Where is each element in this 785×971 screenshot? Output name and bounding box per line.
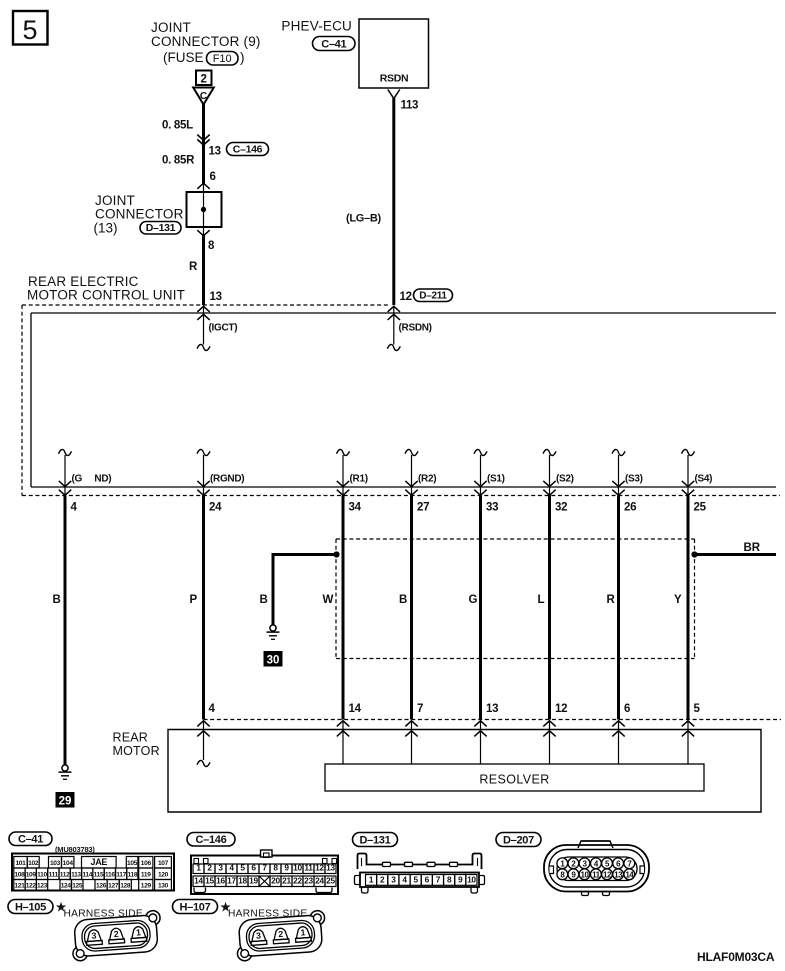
svg-text:32: 32 xyxy=(555,502,567,514)
connector view D-131 xyxy=(358,854,482,870)
svg-text:6: 6 xyxy=(425,875,430,885)
svg-text:126: 126 xyxy=(96,883,107,890)
svg-text:33: 33 xyxy=(486,502,498,514)
svg-text:24: 24 xyxy=(209,502,222,514)
ground symbol 29 xyxy=(62,765,68,771)
resolver wires R1 R2 S1 S2 S3 S4 xyxy=(342,496,345,720)
svg-text:3: 3 xyxy=(218,863,223,873)
svg-text:102: 102 xyxy=(28,860,39,867)
svg-text:4: 4 xyxy=(402,875,407,885)
svg-text:14: 14 xyxy=(349,703,362,715)
resolver pin 5 entry xyxy=(682,721,694,727)
svg-text:HLAF0M03CA: HLAF0M03CA xyxy=(697,950,775,964)
svg-text:25: 25 xyxy=(326,876,335,886)
control unit dashed boundary xyxy=(22,304,390,306)
wire fork at PHEV-ECU pin 113 xyxy=(388,90,400,99)
svg-text:B: B xyxy=(260,594,268,606)
svg-text:29: 29 xyxy=(59,795,72,807)
control unit pin 34 (R1) wire inside xyxy=(337,449,350,455)
PHEV-ECU box xyxy=(359,19,429,88)
pin 13 entry IGCT xyxy=(197,306,209,312)
connector label D-131 (bottom) xyxy=(353,833,398,847)
svg-text:4: 4 xyxy=(71,502,78,514)
svg-text:W: W xyxy=(323,594,334,606)
svg-text:RSDN: RSDN xyxy=(380,73,409,85)
svg-text:(IGCT): (IGCT) xyxy=(209,323,238,334)
RESOLVER box xyxy=(325,764,704,791)
svg-text:H–107: H–107 xyxy=(180,902,211,914)
svg-text:4: 4 xyxy=(229,863,234,873)
svg-text:9: 9 xyxy=(458,875,463,885)
svg-text:8: 8 xyxy=(273,863,278,873)
svg-text:116: 116 xyxy=(105,872,115,879)
svg-text:MOTOR CONTROL UNIT: MOTOR CONTROL UNIT xyxy=(27,288,185,303)
shield dashed box xyxy=(336,538,695,540)
ground symbol 30 xyxy=(270,625,276,631)
svg-text:7: 7 xyxy=(436,875,441,885)
connector label D-207 (bottom) xyxy=(496,833,541,847)
svg-text:10: 10 xyxy=(467,875,476,885)
svg-text:16: 16 xyxy=(216,876,225,886)
svg-text:1: 1 xyxy=(369,875,374,885)
wire PHEV-ECU to control unit pin 12, color LG-B xyxy=(392,98,395,305)
svg-text:(S4): (S4) xyxy=(695,474,713,485)
control unit pin 26 (S3) wire inside xyxy=(612,449,625,455)
svg-text:24: 24 xyxy=(315,876,324,886)
svg-text:PHEV-ECU: PHEV-ECU xyxy=(281,19,352,34)
svg-text:(S1): (S1) xyxy=(487,474,505,485)
svg-text:3: 3 xyxy=(256,930,262,940)
svg-text:125: 125 xyxy=(72,883,83,890)
svg-text:7: 7 xyxy=(262,863,267,873)
svg-text:(R1): (R1) xyxy=(350,474,368,485)
control unit pin 4 (GND) wire inside xyxy=(59,449,72,455)
resolver pin 13 entry xyxy=(474,721,486,727)
connector view H-107 body xyxy=(235,910,327,961)
connector label C-146 xyxy=(227,143,269,156)
svg-text:119: 119 xyxy=(141,872,151,879)
svg-text:26: 26 xyxy=(624,502,636,514)
joint connector (13) box D-131 xyxy=(203,183,205,236)
svg-text:B: B xyxy=(399,594,407,606)
control unit pin 33 (S1) wire inside xyxy=(474,449,487,455)
svg-text:107: 107 xyxy=(158,860,169,867)
svg-text:108: 108 xyxy=(14,872,25,879)
svg-text:(S3): (S3) xyxy=(625,474,643,485)
svg-text:13: 13 xyxy=(614,870,623,879)
svg-text:C–41: C–41 xyxy=(18,834,43,846)
svg-text:5: 5 xyxy=(414,875,419,885)
svg-text:104: 104 xyxy=(63,860,74,867)
svg-text:F10: F10 xyxy=(213,53,232,65)
wire from fuse to joint connector D-131 xyxy=(202,104,205,184)
svg-text:BR: BR xyxy=(744,542,761,554)
svg-text:30: 30 xyxy=(267,654,280,666)
svg-text:121: 121 xyxy=(14,883,25,890)
svg-text:12: 12 xyxy=(603,870,612,879)
svg-text:8: 8 xyxy=(447,875,452,885)
svg-text:D–131: D–131 xyxy=(146,222,176,234)
svg-text:D–207: D–207 xyxy=(503,835,534,847)
svg-text:117: 117 xyxy=(116,872,126,879)
svg-text:R: R xyxy=(607,594,616,606)
svg-text:MOTOR: MOTOR xyxy=(113,744,160,758)
svg-text:(RSDN): (RSDN) xyxy=(399,323,432,334)
svg-text:G: G xyxy=(469,594,478,606)
connector view C-146 xyxy=(191,856,338,895)
svg-text:13: 13 xyxy=(209,146,221,158)
wire pin24 RGND to rear motor pin4 xyxy=(202,496,205,720)
svg-text:CONNECTOR (9): CONNECTOR (9) xyxy=(151,34,261,49)
svg-text:114: 114 xyxy=(82,872,92,879)
svg-text:14: 14 xyxy=(625,870,634,879)
svg-text:6: 6 xyxy=(624,703,630,715)
svg-text:109: 109 xyxy=(26,872,37,879)
svg-text:6: 6 xyxy=(251,863,256,873)
shield BR wire to next page xyxy=(691,551,697,557)
svg-text:6: 6 xyxy=(210,171,216,183)
svg-text:11: 11 xyxy=(304,863,313,873)
resolver pin 6 entry xyxy=(612,721,624,727)
svg-text:5: 5 xyxy=(694,703,701,715)
svg-text:1: 1 xyxy=(196,863,201,873)
svg-text:12: 12 xyxy=(315,863,324,873)
svg-text:3: 3 xyxy=(391,875,396,885)
svg-text:10: 10 xyxy=(293,863,302,873)
svg-text:11: 11 xyxy=(592,870,601,879)
D-207 side notches xyxy=(550,866,554,874)
svg-text:): ) xyxy=(240,50,245,65)
svg-text:27: 27 xyxy=(417,502,429,514)
svg-text:34: 34 xyxy=(349,502,362,514)
control unit pin 24 (RGND) wire inside xyxy=(197,449,210,455)
svg-text:B: B xyxy=(53,594,61,606)
svg-text:13: 13 xyxy=(486,703,498,715)
svg-text:(S2): (S2) xyxy=(556,474,574,485)
control unit inner solid box xyxy=(31,312,776,314)
shield drain wire B to ground 30 xyxy=(273,553,337,556)
svg-text:124: 124 xyxy=(61,883,72,890)
svg-text:113: 113 xyxy=(71,872,81,879)
svg-text:5: 5 xyxy=(22,15,37,45)
wire joint connector to control unit pin 13 xyxy=(197,230,209,236)
svg-text:2: 2 xyxy=(278,929,284,939)
connector label D-131 xyxy=(140,222,181,235)
D-207 pins 1-14 xyxy=(557,858,568,869)
svg-text:19: 19 xyxy=(249,876,258,886)
connector label C-146 (bottom) xyxy=(187,833,235,847)
svg-text:123: 123 xyxy=(37,883,48,890)
svg-text:C–146: C–146 xyxy=(233,144,263,156)
svg-text:130: 130 xyxy=(158,883,169,890)
svg-text:4: 4 xyxy=(209,703,216,715)
svg-text:15: 15 xyxy=(205,876,214,886)
C-146 bottom tabs xyxy=(194,888,206,893)
svg-text:128: 128 xyxy=(120,883,131,890)
svg-text:13: 13 xyxy=(210,291,222,303)
svg-text:120: 120 xyxy=(158,872,169,879)
svg-text:118: 118 xyxy=(127,872,137,879)
svg-text:3: 3 xyxy=(91,930,97,940)
svg-text:1: 1 xyxy=(136,927,142,937)
rear motor pin 4 entry xyxy=(197,721,209,727)
connector label C-41 xyxy=(313,37,356,51)
svg-text:112: 112 xyxy=(60,872,70,879)
control unit pin 25 (S4) wire inside xyxy=(682,449,695,455)
svg-text:(G ND): (G ND) xyxy=(72,474,112,485)
svg-text:D–211: D–211 xyxy=(419,291,447,302)
svg-text:(RGND): (RGND) xyxy=(210,474,244,485)
svg-text:C–41: C–41 xyxy=(321,39,346,51)
svg-text:2: 2 xyxy=(207,863,212,873)
connector label C-41 (bottom) xyxy=(9,832,52,846)
svg-text:L: L xyxy=(538,594,545,606)
svg-text:129: 129 xyxy=(141,883,152,890)
svg-text:0. 85L: 0. 85L xyxy=(162,120,193,132)
svg-text:REAR: REAR xyxy=(113,731,149,745)
svg-text:10: 10 xyxy=(581,870,590,879)
svg-text:REAR ELECTRIC: REAR ELECTRIC xyxy=(28,274,139,289)
svg-text:C–146: C–146 xyxy=(196,834,227,846)
connector view C-41 grid xyxy=(12,854,174,891)
svg-text:110: 110 xyxy=(37,872,47,879)
pin 12 entry RSDN xyxy=(388,306,400,312)
resolver pin 7 entry xyxy=(405,721,417,727)
control unit pin 32 (S2) wire inside xyxy=(543,449,556,455)
svg-text:(R2): (R2) xyxy=(418,474,436,485)
svg-text:9: 9 xyxy=(284,863,289,873)
svg-text:12: 12 xyxy=(555,703,567,715)
svg-text:17: 17 xyxy=(227,876,236,886)
svg-text:115: 115 xyxy=(94,872,104,879)
svg-text:21: 21 xyxy=(282,876,291,886)
svg-text:22: 22 xyxy=(293,876,302,886)
wire pin4 GND to ground 29 xyxy=(64,496,67,766)
connector label H-105 xyxy=(8,900,53,914)
svg-text:H–105: H–105 xyxy=(15,902,46,914)
svg-text:101: 101 xyxy=(15,860,26,867)
svg-text:0. 85R: 0. 85R xyxy=(162,155,195,167)
D-207 bottom feet xyxy=(582,892,589,896)
resolver pin 14 entry xyxy=(337,721,349,727)
svg-text:5: 5 xyxy=(240,863,245,873)
svg-text:Y: Y xyxy=(674,594,682,606)
svg-text:14: 14 xyxy=(194,876,203,886)
connector label H-107 xyxy=(173,900,218,914)
svg-text:D–131: D–131 xyxy=(360,835,391,847)
svg-text:2: 2 xyxy=(113,929,119,939)
connector pass-through C-146 chevrons xyxy=(197,135,209,141)
svg-text:1: 1 xyxy=(300,927,306,937)
rear motor box xyxy=(168,730,761,813)
svg-text:127: 127 xyxy=(108,883,119,890)
svg-text:8: 8 xyxy=(208,240,215,252)
svg-text:113: 113 xyxy=(401,100,419,112)
svg-text:RESOLVER: RESOLVER xyxy=(479,773,549,787)
svg-text:20: 20 xyxy=(271,876,280,886)
connector view D-207 xyxy=(578,841,613,848)
connector view H-105 body xyxy=(70,910,162,961)
svg-text:C: C xyxy=(200,91,207,102)
svg-text:105: 105 xyxy=(127,860,138,867)
svg-text:122: 122 xyxy=(26,883,37,890)
svg-text:JOINT: JOINT xyxy=(151,20,191,35)
resolver pin 12 entry xyxy=(543,721,555,727)
D-131 pin row xyxy=(360,873,479,888)
svg-text:103: 103 xyxy=(50,860,61,867)
svg-text:(13): (13) xyxy=(94,221,118,236)
svg-text:13: 13 xyxy=(326,863,335,873)
svg-text:25: 25 xyxy=(694,502,707,514)
svg-text:7: 7 xyxy=(417,703,423,715)
svg-text:JAE: JAE xyxy=(90,857,107,867)
svg-text:CONNECTOR: CONNECTOR xyxy=(95,207,184,222)
fuse tap symbol 2 xyxy=(196,71,212,86)
svg-text:2: 2 xyxy=(200,73,206,85)
control unit pin 27 (R2) wire inside xyxy=(405,449,418,455)
svg-text:(LG–B): (LG–B) xyxy=(346,213,382,225)
D-131 side clips and feet xyxy=(355,876,361,885)
connector C triangle xyxy=(193,88,214,105)
svg-text:2: 2 xyxy=(380,875,385,885)
svg-text:23: 23 xyxy=(304,876,313,886)
svg-text:12: 12 xyxy=(400,291,412,303)
svg-text:106: 106 xyxy=(141,860,152,867)
svg-text:R: R xyxy=(189,261,198,273)
rear motor connector dashed line xyxy=(204,719,782,721)
svg-text:P: P xyxy=(190,594,198,606)
svg-text:111: 111 xyxy=(49,872,59,879)
svg-text:(FUSE: (FUSE xyxy=(163,50,204,65)
svg-text:18: 18 xyxy=(238,876,247,886)
frame number 5 box xyxy=(13,11,48,45)
